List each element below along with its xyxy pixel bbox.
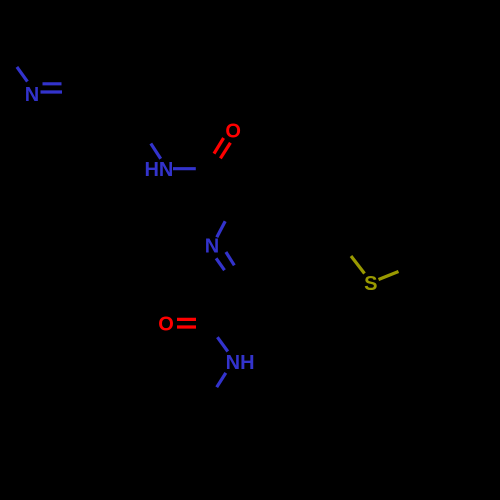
node NH: bottom amide nitrogen label: [226, 352, 255, 374]
svg-text:S: S: [364, 273, 377, 295]
node HN: top amide nitrogen label: [144, 159, 173, 181]
node O2: bottom carbonyl oxygen label: [158, 314, 174, 336]
wire: bottom NH to C=O half-bond: [217, 337, 227, 351]
wire: central ring N up-right half-bond: [217, 221, 225, 237]
wire: bottom carbonyl C=O line B: [177, 325, 196, 328]
svg-text:NH: NH: [226, 352, 255, 374]
wire: top carbonyl C=O line B: [220, 143, 230, 159]
wire: amide HN to C=O half-bond: [173, 167, 196, 170]
svg-text:O: O: [225, 121, 241, 143]
wire: pyridine N=C main half-bond: [41, 90, 63, 93]
wire: central ring N=C inner line: [226, 252, 234, 265]
wire: S to ring half-bond: [351, 256, 365, 274]
svg-text:N: N: [205, 236, 219, 258]
wire: pyridine N=C inner line: [43, 82, 62, 85]
wire: bottom carbonyl C=O line A: [177, 318, 196, 321]
wire: central ring N=C main half-bond: [216, 258, 224, 270]
svg-text:HN: HN: [144, 159, 173, 181]
wire: bottom NH to methyl half-bond: [217, 373, 226, 387]
node S: thioether sulfur label: [364, 273, 377, 295]
wire: amide HN to CH2 half-bond: [151, 144, 161, 159]
wire: top carbonyl C=O line A: [214, 138, 224, 154]
wire: pyridine N methyl half-bond: [17, 67, 28, 82]
node N1: pyridine nitrogen label: [25, 84, 39, 106]
node O1: top carbonyl oxygen label: [225, 121, 241, 143]
node N2: central ring nitrogen label: [205, 236, 219, 258]
wire: S to methyl half-bond: [379, 272, 399, 280]
svg-text:N: N: [25, 84, 39, 106]
svg-text:O: O: [158, 314, 174, 336]
